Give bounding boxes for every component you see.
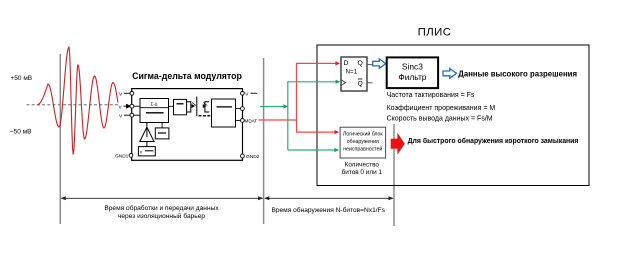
LED symbol right — [203, 104, 207, 108]
svg-text:Время обработки и передачи дан: Время обработки и передачи данных — [104, 204, 219, 212]
svg-text:через изоляционный барьер: через изоляционный барьер — [118, 212, 205, 220]
reference buffer triangle — [140, 127, 154, 141]
coupler bracket left — [187, 102, 191, 112]
svg-text:обнаружения: обнаружения — [347, 139, 379, 145]
pin circle MCLKOUT — [241, 107, 245, 111]
svg-text:MDAT: MDAT — [245, 119, 258, 124]
svg-text:GND2: GND2 — [246, 154, 260, 160]
svg-text:Логический блок: Логический блок — [343, 131, 383, 138]
pin circle MDAT — [241, 119, 245, 123]
wire green to fault block — [288, 149, 336, 151]
svg-text:+50 мВ: +50 мВ — [11, 75, 33, 82]
svg-text:GND1: GND1 — [115, 154, 129, 160]
svg-text:Sinc3: Sinc3 — [402, 62, 423, 72]
timeline T1 vertical — [59, 54, 61, 224]
analog input waveform — [37, 47, 118, 155]
pin VIN- wire — [124, 114, 130, 116]
svg-text:Q: Q — [358, 81, 363, 88]
clock pin triangle — [341, 80, 346, 86]
LED symbol left — [192, 104, 196, 108]
pin circle GND2 — [241, 154, 245, 158]
svg-text:Время обнаружения N-битов=Nx1/: Время обнаружения N-битов=Nx1/Fs — [271, 206, 385, 214]
D flip-flop U2 — [341, 57, 367, 91]
blue arrow output — [443, 69, 457, 79]
svg-text:Количество: Количество — [345, 161, 380, 168]
sigma-delta ADC block — [140, 99, 169, 123]
wire red to fault block — [297, 120, 336, 132]
encoder block — [174, 99, 187, 114]
svg-text:N=1: N=1 — [346, 69, 358, 76]
fault detection logic block — [340, 127, 386, 158]
coupler bracket right — [205, 102, 209, 112]
barrier ground dashes — [199, 115, 212, 117]
timeline T3 vertical — [393, 124, 395, 226]
red fast-detect arrow — [391, 133, 405, 155]
wire ADC to encoder — [169, 105, 174, 107]
dimension arrow A — [62, 197, 263, 199]
reference block — [138, 147, 155, 156]
clock block — [155, 128, 169, 139]
wire MDAT red — [258, 63, 336, 120]
wire MCLK green — [260, 106, 285, 108]
wire green bus — [288, 82, 337, 150]
pin VDD1 wire — [124, 92, 130, 94]
blue arrow to Sinc3 — [373, 59, 386, 68]
svg-text:Q: Q — [358, 60, 363, 67]
svg-text:Для быстрого обнаружения корот: Для быстрого обнаружения короткого замык… — [408, 137, 579, 145]
dimension arrow B — [265, 197, 393, 199]
svg-text:Скорость вывода данных = Fs/M: Скорость вывода данных = Fs/M — [387, 116, 493, 123]
svg-text:Коэффициент прореживания = M: Коэффициент прореживания = M — [387, 105, 496, 112]
svg-text:Сигма-дельта модулятор: Сигма-дельта модулятор — [132, 71, 242, 81]
pin circle VIN+ — [130, 104, 134, 108]
svg-text:неисправностей: неисправностей — [343, 146, 382, 153]
svg-text:битов 0 или 1: битов 0 или 1 — [342, 168, 383, 176]
svg-text:Фильтр: Фильтр — [398, 72, 426, 82]
pin circle VDD2 — [241, 91, 245, 95]
svg-text:–50 мВ: –50 мВ — [10, 129, 31, 136]
FPGA box — [317, 45, 589, 186]
decoder block — [212, 99, 236, 127]
timeline T2 vertical — [263, 58, 265, 224]
Sinc3 filter block — [387, 57, 438, 88]
svg-text:Σ-Δ: Σ-Δ — [151, 101, 158, 106]
svg-text:Частота тактирования = Fs: Частота тактирования = Fs — [387, 92, 475, 99]
modulator U1 outline — [132, 89, 243, 161]
Q output stub — [367, 64, 373, 66]
isolation barrier — [196, 97, 198, 117]
svg-text:ПЛИС: ПЛИС — [418, 27, 452, 39]
svg-text:D: D — [344, 60, 349, 67]
dashed zero line — [27, 104, 119, 106]
pin circle VIN- — [130, 113, 134, 117]
pin circle GND1 — [129, 154, 133, 158]
pin VIN+ arrow — [124, 104, 131, 108]
pin wires into ADC — [134, 105, 141, 107]
pin circle VDD1 — [130, 91, 134, 95]
decoder output stubs — [236, 108, 241, 110]
svg-text:Данные высокого разрешения: Данные высокого разрешения — [458, 69, 577, 78]
